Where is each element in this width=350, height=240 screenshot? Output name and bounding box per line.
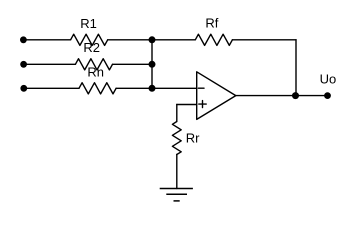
svg-text:Rr: Rr xyxy=(186,131,200,146)
wire bus to Rf xyxy=(152,39,195,41)
op-amp plus sign xyxy=(199,101,206,108)
node output junction xyxy=(292,92,299,99)
op-amp U1 xyxy=(197,72,236,120)
ground xyxy=(160,188,193,190)
node bus row1 xyxy=(149,36,156,43)
wire row3 to op-amp minus input xyxy=(116,87,197,89)
wire row1 left xyxy=(23,39,70,41)
wire plus input horizontal xyxy=(177,104,197,106)
svg-text:Rf: Rf xyxy=(205,16,218,31)
node output terminal xyxy=(324,92,331,99)
resistor R2 xyxy=(75,59,112,70)
resistor Rn xyxy=(79,83,116,94)
svg-text:Rn: Rn xyxy=(87,64,104,79)
node input 2 xyxy=(20,61,27,68)
wire row3 left xyxy=(24,87,79,89)
op-amp minus sign xyxy=(198,87,204,89)
wire row1 to bus xyxy=(108,39,152,41)
svg-text:Uo: Uo xyxy=(320,72,337,87)
node input 3 xyxy=(20,85,27,92)
wire bus vertical xyxy=(151,40,153,89)
svg-text:R2: R2 xyxy=(83,40,100,55)
wire op-amp output xyxy=(236,95,328,97)
wire plus input down to Rr xyxy=(176,105,178,122)
resistor R1 xyxy=(71,34,108,45)
wire row2 to bus xyxy=(113,63,153,65)
wire feedback vertical xyxy=(295,40,297,96)
svg-text:R1: R1 xyxy=(80,16,97,31)
resistor Rf xyxy=(195,34,232,45)
node bus row3 xyxy=(149,85,156,92)
wire Rf to top-right corner xyxy=(232,39,296,41)
wire Rr to ground xyxy=(176,155,178,189)
wire row2 left xyxy=(24,63,76,65)
resistor Rr xyxy=(172,122,181,155)
node input 1 xyxy=(20,36,27,43)
node bus row2 xyxy=(149,61,156,68)
